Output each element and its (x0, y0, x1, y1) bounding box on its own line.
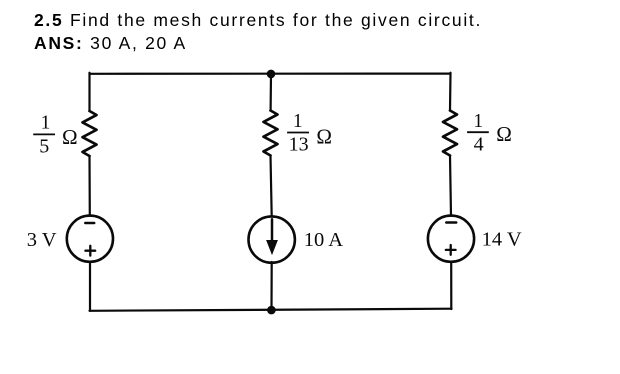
value label: 10 A for source I1 (304, 229, 343, 251)
value label: 1/4 ohm for R3 (467, 111, 512, 156)
wire: left branch, voltage source V1 to bottom rail (89, 262, 91, 311)
svg-text:5: 5 (39, 136, 49, 158)
answer text line 2 (34, 33, 187, 54)
wire: middle branch, current source I1 to bottom node (270, 262, 272, 310)
svg-text:Ω: Ω (316, 124, 332, 148)
wire: bottom horizontal rail (90, 309, 452, 311)
wire: left branch, top-left corner down to resistor R1 (88, 73, 90, 111)
node: top junction dot (267, 70, 276, 79)
wire: middle branch, resistor R2 to current source I1 (271, 156, 272, 217)
value label: 1/5 ohm for R1 (33, 113, 77, 158)
wire: right branch, voltage source V2 to bottom rail (450, 262, 452, 309)
value label: 3 V for source V1 (27, 229, 57, 251)
svg-text:10 A: 10 A (304, 229, 343, 251)
wire: left branch, resistor R1 to voltage source V1 (88, 156, 91, 216)
wire: right branch, top-right corner down to resistor R3 (449, 73, 452, 111)
value label: 14 V for source V2 (482, 229, 522, 251)
value label: 1/13 ohm for R2 (287, 111, 332, 156)
node: bottom junction dot (267, 306, 276, 315)
title text line 1 (34, 10, 482, 31)
voltage source V2 (14 V) circle with polarity marks (428, 216, 474, 262)
voltage source V1 (3 V) circle with polarity marks (67, 216, 113, 262)
wire: middle branch, top node to resistor R2 (270, 74, 273, 110)
svg-text:13: 13 (289, 134, 309, 156)
current source I1 (10 A) circle with downward arrow (249, 216, 295, 262)
svg-text:Ω: Ω (496, 122, 512, 146)
resistor R2 (1/13 ohm), middle branch (264, 111, 278, 156)
svg-text:1: 1 (41, 113, 51, 134)
svg-text:1: 1 (473, 111, 483, 132)
svg-text:1: 1 (293, 111, 303, 132)
svg-text:14 V: 14 V (482, 229, 522, 251)
svg-text:4: 4 (474, 134, 484, 156)
wire: right branch, resistor R3 to voltage source V2 (450, 156, 451, 216)
resistor R3 (1/4 ohm), right branch (443, 111, 457, 156)
svg-text:3 V: 3 V (27, 229, 57, 251)
svg-text:Ω: Ω (62, 125, 78, 149)
wire: top horizontal rail (90, 72, 451, 74)
resistor R1 (1/5 ohm), left branch (83, 111, 97, 156)
